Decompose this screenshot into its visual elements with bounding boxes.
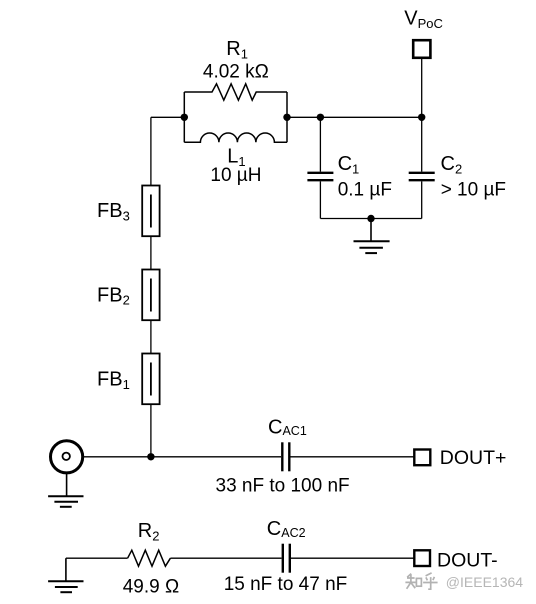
node C2 tap [418, 114, 425, 121]
wire coax to CAC1 [83, 456, 281, 458]
svg-text:DOUT-: DOUT- [437, 549, 498, 571]
svg-text:33 nF to 100 nF: 33 nF to 100 nF [216, 476, 350, 497]
connector coax J1 [51, 441, 83, 473]
wire VPoC down [421, 58, 423, 118]
ferrite bead FB2 [142, 270, 159, 321]
wire R2 to CAC2 [170, 557, 281, 559]
node right of box [283, 114, 290, 121]
node FB junction [147, 453, 154, 460]
svg-text:49.9 Ω: 49.9 Ω [123, 577, 179, 598]
capacitor CAC2 [282, 544, 284, 573]
wire left of box [151, 116, 184, 118]
terminal VPoC [413, 40, 430, 58]
wire FB3 to FB2 [150, 236, 152, 269]
resistor R2 [128, 550, 171, 566]
wire ground to R2 [66, 557, 128, 559]
svg-text:@IEEE1364: @IEEE1364 [446, 574, 523, 590]
wire CAC2 to DOUT- [291, 557, 414, 559]
svg-text:15 nF to 47 nF: 15 nF to 47 nF [224, 574, 348, 595]
wire main horizontal top [287, 116, 422, 118]
node ground tap [367, 215, 374, 222]
capacitor CAC1 [281, 442, 283, 471]
resistor R1 [184, 84, 287, 100]
svg-text:0.1 µF: 0.1 µF [338, 180, 392, 201]
node left of box [181, 114, 188, 121]
svg-text:10 µH: 10 µH [210, 165, 261, 186]
wire FB2 to FB1 [150, 320, 152, 353]
terminal DOUT+ [414, 450, 430, 466]
wire box right edge [286, 92, 288, 142]
wire coax stem [66, 473, 68, 496]
terminal DOUT- [414, 550, 430, 566]
node C1 tap [317, 114, 324, 121]
ground under C1 C2 [370, 219, 372, 242]
svg-text:4.02 kΩ: 4.02 kΩ [203, 62, 269, 83]
ground bottom left [65, 558, 67, 581]
wire down to FB3 [150, 117, 152, 185]
capacitor C1 [319, 117, 321, 171]
ferrite bead FB3 [142, 186, 159, 237]
wire CAC1 to DOUT+ [291, 456, 414, 458]
svg-text:> 10 µF: > 10 µF [441, 180, 506, 201]
inductor L1 [184, 133, 287, 142]
capacitor C2 [421, 117, 423, 171]
watermark zhihu glyphs [405, 573, 437, 589]
ferrite bead FB1 [142, 354, 159, 405]
wire box left edge [183, 92, 185, 142]
wire C bottom horizontal [320, 218, 421, 220]
wire FB1 down to junction [150, 404, 152, 457]
svg-text:DOUT+: DOUT+ [440, 447, 507, 469]
ground under coax [48, 495, 83, 497]
